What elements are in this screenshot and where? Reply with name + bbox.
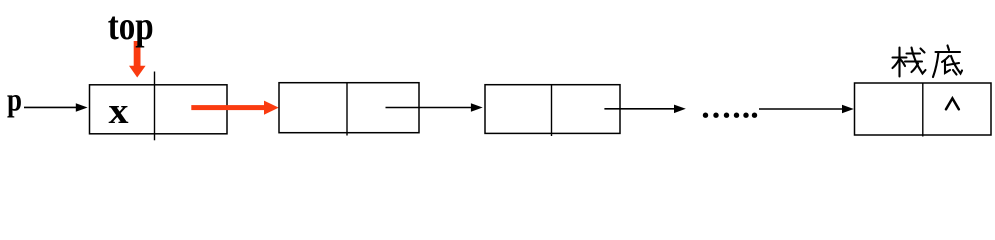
wire: arrow from node N2 to node N3 [386,103,483,112]
node N2 box [279,83,419,133]
node N4 divider [922,83,924,137]
wire: arrow from ellipsis to node N4 [759,105,854,114]
wire: arrow from node N3 to ellipsis [604,105,685,114]
red arrow from top label down to node N1 [129,41,146,78]
svg-text:p: p [7,83,22,119]
red arrow from node N1 to node N2 [191,101,278,115]
label 底 (bottom) character strokes [933,46,962,78]
null pointer caret in node N4 [946,98,959,109]
node N2 divider [346,83,348,136]
svg-text:top: top [108,3,154,48]
svg-text:x: x [109,91,130,132]
node N4 box [855,83,992,135]
node N1 box [90,85,228,134]
label 栈 (stack) character strokes [893,48,926,77]
node N3 divider [551,85,553,136]
wire: arrow from p to node N1 [24,103,88,112]
node N1 divider [154,72,156,141]
node N3 box [485,85,620,134]
ellipsis dots [703,113,757,118]
